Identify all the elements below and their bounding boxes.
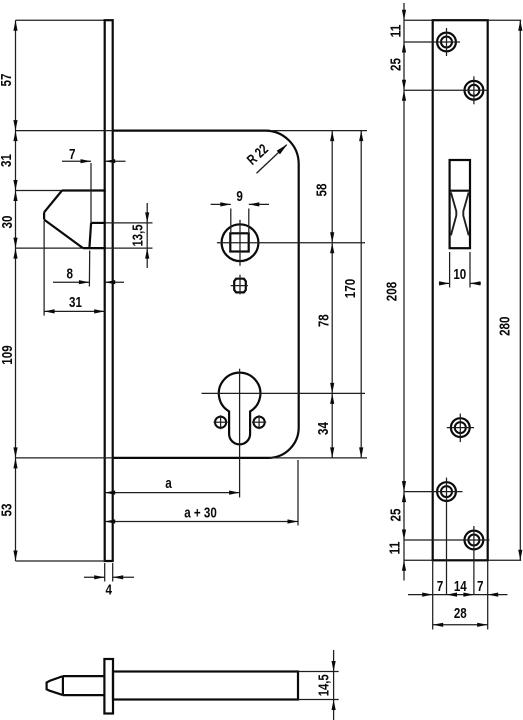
latch neck shoulder line bbox=[62, 676, 64, 695]
dim 14,5 bbox=[298, 671, 339, 673]
euro profile cylinder hole bbox=[219, 373, 261, 445]
svg-text:170: 170 bbox=[343, 279, 359, 298]
latch bolt lower diagonal bbox=[44, 220, 83, 249]
svg-text:9: 9 bbox=[236, 189, 243, 205]
dim 8 bbox=[53, 281, 89, 283]
svg-text:7: 7 bbox=[477, 579, 484, 595]
svg-text:280: 280 bbox=[497, 316, 513, 335]
latch slot inner line bbox=[450, 190, 470, 192]
svg-text:14,5: 14,5 bbox=[316, 674, 332, 696]
extension line y=20.2 (faceplate top) bbox=[16, 19, 105, 21]
svg-text:208: 208 bbox=[385, 282, 401, 301]
latch bolt bevel bbox=[44, 191, 62, 213]
svg-text:53: 53 bbox=[0, 504, 16, 517]
latch neck top edge bbox=[63, 675, 105, 677]
extension line y=190.5 left bbox=[16, 190, 63, 192]
latch stem front face bbox=[89, 223, 91, 248]
extension line y=561 (faceplate bottom) bbox=[16, 560, 105, 562]
dim 13,5 bbox=[146, 203, 148, 268]
svg-text:28: 28 bbox=[454, 606, 467, 622]
striking faceplate front view outline bbox=[433, 20, 488, 560]
dim 28 bbox=[433, 624, 488, 626]
svg-text:25: 25 bbox=[388, 509, 404, 522]
svg-text:10: 10 bbox=[453, 267, 466, 283]
lock case right edge extension line bbox=[297, 460, 299, 526]
cylinder screw hole right bbox=[254, 417, 265, 428]
dim 10 (latch slot width) bbox=[449, 252, 451, 288]
fixing screw hex below follower bbox=[234, 279, 246, 293]
faceplate screw hole top 2 bbox=[465, 81, 484, 100]
dims 7/14/7 below plate bbox=[432, 562, 434, 630]
svg-text:R 22: R 22 bbox=[244, 141, 272, 168]
follower vertical centerline bbox=[239, 220, 241, 266]
cylinder horizontal centerline / extension to dim 78-34 bbox=[202, 392, 366, 394]
svg-text:14: 14 bbox=[454, 579, 467, 595]
cylinder vertical centerline (extends to dim a) bbox=[239, 369, 241, 498]
left dim chain line bbox=[15, 20, 17, 561]
svg-text:a: a bbox=[165, 476, 172, 492]
dim a (backset) bbox=[105, 492, 240, 494]
svg-text:7: 7 bbox=[69, 147, 76, 163]
latch nose bevel left (front view) bbox=[451, 192, 456, 235]
latch bolt bottom edge bbox=[83, 247, 106, 249]
latch bolt nose flat bbox=[43, 212, 45, 219]
dims 58/78/34 chain line bbox=[331, 131, 333, 458]
dim 31 (latch width) bbox=[44, 310, 105, 312]
svg-text:4: 4 bbox=[105, 583, 112, 599]
faceplate screw hole top 1 bbox=[437, 33, 456, 52]
dim a+30 bbox=[105, 521, 298, 523]
latch stem extension lines for dim 13,5 bbox=[106, 222, 153, 224]
latch nose bevel right (front view) bbox=[463, 192, 468, 235]
svg-text:7: 7 bbox=[437, 579, 444, 595]
svg-text:a + 30: a + 30 bbox=[184, 506, 217, 522]
faceplate screw hole bottom 1 bbox=[437, 482, 456, 501]
extension line y=457.9 left bbox=[16, 457, 113, 459]
lock case outline bbox=[113, 131, 299, 458]
dim 280 bbox=[488, 19, 522, 21]
svg-text:11: 11 bbox=[388, 25, 404, 38]
svg-text:78: 78 bbox=[316, 314, 332, 327]
svg-text:57: 57 bbox=[0, 74, 15, 87]
svg-text:25: 25 bbox=[388, 58, 404, 71]
extension line y=130.6 right (to dims 58/170) bbox=[270, 130, 367, 132]
svg-text:109: 109 bbox=[0, 345, 16, 364]
faceplate screw hole bottom 2 bbox=[465, 531, 484, 550]
latch bolt body (bottom view) bbox=[113, 672, 298, 700]
svg-text:13,5: 13,5 bbox=[131, 224, 147, 246]
dim 7 (latch stem to plate) bbox=[62, 160, 91, 162]
svg-text:31: 31 bbox=[0, 154, 15, 167]
latch neck bottom edge bbox=[63, 694, 105, 696]
radius leader R 22 bbox=[257, 145, 287, 173]
dim 9 (square spindle) bbox=[230, 209, 232, 233]
dim 170 bbox=[360, 131, 362, 458]
follower horizontal centerline / extension to dim 58-78 bbox=[217, 242, 365, 244]
svg-text:31: 31 bbox=[69, 295, 82, 311]
extension line y=457.9 right (to dims 34/170) bbox=[270, 457, 367, 459]
faceplate cross-section flange (bottom view) bbox=[104, 659, 113, 714]
svg-text:11: 11 bbox=[388, 542, 404, 555]
follower hole circle bbox=[222, 224, 259, 261]
latch bolt side view - top edge bbox=[62, 189, 106, 191]
extension line y=248.1 left bbox=[16, 247, 84, 249]
svg-text:34: 34 bbox=[316, 422, 332, 435]
right view dim chain line bbox=[403, 3, 405, 581]
latch slot outline bbox=[450, 160, 470, 248]
extension line y=130.6 left bbox=[16, 130, 113, 132]
follower square spindle hole bbox=[230, 233, 248, 251]
dim 4 (faceplate thickness) bbox=[104, 563, 106, 582]
faceplate screw hole middle (cylinder fixing) bbox=[451, 418, 470, 437]
svg-text:30: 30 bbox=[0, 216, 16, 229]
latch stem top edge bbox=[91, 222, 106, 224]
faceplate side view bbox=[105, 20, 113, 561]
left chain arrows bbox=[13, 20, 17, 31]
cylinder screw hole left bbox=[215, 417, 226, 428]
svg-text:8: 8 bbox=[66, 267, 73, 283]
right chain arrows bbox=[402, 10, 406, 21]
latch nose taper (bottom view) bbox=[47, 676, 63, 695]
svg-text:58: 58 bbox=[315, 184, 331, 197]
fixing screw cross lines bbox=[231, 285, 248, 287]
